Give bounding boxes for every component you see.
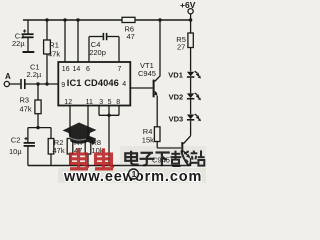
svg-text:47k: 47k [48, 50, 60, 59]
svg-text:A: A [5, 72, 11, 81]
svg-text:R3: R3 [20, 96, 30, 105]
wire pin 7 to C4 [118, 37, 120, 63]
junction dot R3 top [36, 82, 39, 85]
LED VD3 [169, 114, 201, 136]
wire pin 16 to rail [64, 20, 66, 62]
junction dot rail +6V [189, 18, 192, 21]
svg-text:47: 47 [127, 32, 135, 41]
transistor VT1 [129, 20, 160, 127]
wire manifold to ground [108, 115, 110, 165]
svg-text:R1: R1 [49, 41, 59, 50]
resistor R8 [85, 138, 104, 166]
wire bottom ground rail [28, 165, 191, 167]
svg-text:4: 4 [122, 81, 126, 88]
svg-text:8: 8 [116, 99, 120, 106]
svg-text:16: 16 [62, 66, 70, 73]
wire pin 3 stub [98, 106, 100, 116]
watermark graduation cap [63, 123, 97, 145]
wire top supply rail left segment [23, 19, 122, 21]
wire C1 to IC pin 9 [25, 83, 59, 85]
watermark text zai [171, 151, 189, 166]
svg-text:6: 6 [86, 66, 90, 73]
junction dot rail R1 [45, 18, 48, 21]
watermark red logo char 1 [70, 148, 89, 169]
resistor R1 [44, 20, 61, 84]
junction dot rail pin14 [76, 18, 79, 21]
wire filter bus [28, 127, 51, 129]
svg-text:47k: 47k [20, 105, 32, 114]
wire R4 to VT2 base [157, 147, 181, 149]
svg-text:2.2µ: 2.2µ [27, 70, 42, 79]
figure number circle 1 [129, 169, 139, 179]
svg-text:22µ: 22µ [12, 39, 25, 48]
wire pin 5 stub [108, 106, 110, 116]
svg-text:VD2: VD2 [169, 93, 184, 102]
svg-text:220p: 220p [89, 48, 106, 57]
resistor R5 [176, 20, 193, 72]
svg-text:5: 5 [108, 99, 112, 106]
LED VD2 [169, 93, 201, 115]
capacitor C4 [89, 33, 119, 57]
svg-text:15k: 15k [142, 135, 154, 144]
wire pin 6 to C4 [88, 37, 90, 63]
power terminal +6V [180, 0, 196, 20]
transistor VT2 [152, 136, 191, 166]
watermark text zhan [190, 150, 204, 166]
svg-text:14: 14 [73, 66, 81, 73]
resistor R7 [67, 138, 83, 166]
svg-text:10µ: 10µ [9, 147, 22, 156]
svg-text:+6V: +6V [180, 0, 196, 10]
watermark red logo char 2 [95, 148, 114, 169]
junction dot R3 bottom [36, 126, 39, 129]
watermark text dian [125, 151, 138, 165]
watermark text zi [140, 153, 155, 166]
ground bar under C3 [23, 51, 35, 53]
resistor R2 [48, 128, 65, 166]
capacitor C1 [21, 62, 42, 89]
resistor R3 [20, 84, 42, 128]
wire pin 11 down [87, 106, 89, 139]
svg-text:C2: C2 [11, 136, 21, 145]
svg-text:IC1 CD4046: IC1 CD4046 [67, 78, 119, 88]
svg-text:11: 11 [86, 99, 93, 106]
wire top supply rail right segment [135, 19, 191, 21]
svg-text:VD3: VD3 [169, 114, 184, 123]
capacitor C2 [9, 128, 35, 166]
op-amp IC1 CD4046 body [58, 62, 130, 106]
svg-text:27: 27 [177, 43, 185, 52]
wire pin 14 to rail [77, 20, 79, 62]
LED VD1 [168, 71, 201, 94]
resistor R4 [142, 127, 160, 148]
junction dot manifold [107, 114, 110, 117]
svg-text:12: 12 [64, 99, 72, 106]
svg-text:1: 1 [132, 169, 137, 179]
input terminal A [4, 72, 20, 87]
scan noise tint over watermark text area [120, 146, 206, 167]
wire pin 12 down [69, 106, 71, 139]
capacitor C3 [12, 20, 34, 51]
resistor R6 [122, 17, 135, 41]
svg-text:VD1: VD1 [168, 71, 183, 80]
junction dot rail VT1 collector [158, 18, 161, 21]
svg-text:47k: 47k [53, 146, 65, 155]
wire pin 8 stub [118, 106, 120, 116]
svg-text:3: 3 [99, 99, 103, 106]
svg-text:C945: C945 [138, 69, 156, 78]
svg-text:7: 7 [118, 66, 122, 73]
wire pins 3-5-8 manifold [99, 114, 119, 116]
junction dot rail pin16 [63, 18, 66, 21]
IC1 pin labels top [62, 66, 122, 73]
watermark text xia [156, 153, 170, 167]
junction dot R1 bottom [45, 82, 48, 85]
svg-text:9: 9 [61, 82, 65, 89]
IC1 pin labels bottom [64, 99, 120, 106]
